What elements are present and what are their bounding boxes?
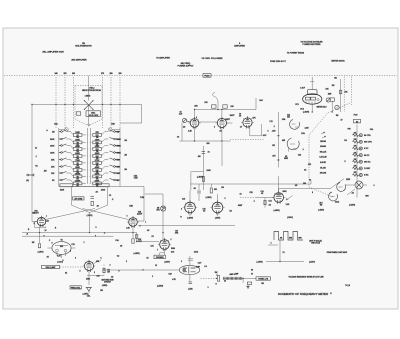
svg-text:(+250V): (+250V) [197,177,204,179]
S1 contact row 6 left [51,165,66,168]
resistor 100K [76,112,81,115]
svg-text:3: 3 [94,272,95,274]
wire V3 cathode drop [221,141,223,166]
svg-text:2: 2 [171,239,172,241]
wire V2 plate [194,110,196,119]
svg-text:R60: R60 [365,196,368,198]
resistor column A row 7 [67,173,86,178]
junction lead3 [73,104,74,105]
label R18 value [107,270,110,274]
wire V8 bottom [189,275,191,282]
svg-text:2.4K-5K: 2.4K-5K [320,161,327,164]
tube V2 [188,117,200,128]
dashed lead under V4A [230,139,264,141]
tube V12C arc [329,192,338,201]
svg-text:1200K: 1200K [75,180,81,182]
svg-text:C22: C22 [298,155,301,157]
label R15 value [137,239,142,243]
resistor R23 [136,235,138,239]
capacitor C10 [202,152,206,154]
svg-text:(+250V): (+250V) [273,210,280,212]
svg-text:SCHEMATIC OF FREQUENCY METE: SCHEMATIC OF FREQUENCY METER [278,292,329,296]
junction lead5 [110,104,111,105]
svg-text:200K: 200K [50,145,55,147]
label section mil freq power supply [178,63,195,68]
label R21 value [156,208,160,212]
tube V8 ballast envelope [179,265,199,274]
terminal box 2021 [86,111,101,117]
svg-text:C7: C7 [240,127,242,129]
trimmer C8 [182,118,190,122]
wire V2/V3 cathode bus [180,123,231,142]
junction heater left [103,269,104,270]
svg-text:750K: 750K [75,160,80,162]
bus +B line [22,232,137,234]
svg-text:.1: .1 [273,126,274,128]
S1 contact row 3 left [50,144,66,147]
svg-text:.05: .05 [46,257,48,259]
svg-text:.5M: .5M [198,156,201,158]
resistor column A row 1 [67,132,86,137]
svg-text:2ND AMPLIFIER: 2ND AMPLIFIER [71,59,87,62]
resistor R26 [247,282,251,284]
svg-text:C28: C28 [168,274,171,276]
wire bus drop x=256 [255,98,257,110]
svg-text:290: 290 [118,73,121,75]
freq dial label box [70,286,81,290]
svg-text:10%: 10% [175,233,179,235]
S1 contact row 5 left [51,158,66,161]
dial lamp label box [42,265,60,269]
svg-text:OC3: OC3 [300,109,304,111]
svg-text:1W: 1W [32,242,35,244]
wire to panel lights [243,278,256,283]
tube V9B half-section [287,138,299,152]
svg-text:3: 3 [181,261,182,263]
svg-text:2: 2 [75,258,76,260]
tube V4A [241,116,254,128]
svg-text:300K: 300K [95,153,100,155]
junction v3 top [221,109,222,110]
S1 contact row 2 right [110,137,122,140]
svg-text:POWER SUPPLY: POWER SUPPLY [178,66,195,68]
svg-text:NEON STROBOTRON: NEON STROBOTRON [82,90,101,92]
svg-text:260: 260 [72,73,75,75]
svg-text:C25: C25 [249,192,252,194]
S2 contact 4 with resistor [353,152,371,157]
svg-text:.02: .02 [111,277,113,279]
svg-text:C2: C2 [282,252,284,254]
svg-text:.5M: .5M [44,171,47,173]
resistor R14 [38,244,40,248]
svg-text:(-150V): (-150V) [164,262,170,264]
S1 row 2 dotted leader [85,141,92,143]
svg-text:C24: C24 [115,239,118,242]
S1 right bus [119,128,121,187]
label note not to scale [309,240,323,245]
svg-text:.1: .1 [302,149,303,151]
svg-text:6 MC: 6 MC [364,175,369,177]
resistor column A row 6 [67,167,86,172]
resistor R15 [132,239,134,243]
S1 row 8 dotted leader [85,182,92,184]
junction V3 cathode [221,140,222,141]
chassis boundary dashed line [4,75,397,77]
resistor R42 [330,98,334,101]
svg-text:(+150V): (+150V) [318,210,324,212]
label C10 value [207,152,209,154]
svg-text:6: 6 [143,270,144,272]
svg-text:S3: S3 [251,270,253,272]
S2 contact 5 with resistor [353,159,372,164]
neon lamp NE-2 crossed electrodes [84,100,94,110]
svg-text:10%: 10% [282,119,286,121]
svg-text:1: 1 [84,242,85,244]
svg-text:150K: 150K [75,132,80,134]
svg-text:COLD CATH: COLD CATH [88,114,99,117]
svg-text:225K: 225K [95,146,100,148]
svg-text:V5: V5 [60,240,62,242]
svg-text:7.5M: 7.5M [134,178,138,180]
S1 contact row 4 right [110,151,122,154]
capacitor C9 [189,282,193,284]
svg-text:C23: C23 [308,164,311,166]
junction lead2 [64,104,65,105]
svg-text:60 KC: 60 KC [364,155,370,157]
label C16 label [203,209,206,213]
junction v2 top [194,109,195,110]
svg-text:(+6.3V): (+6.3V) [57,262,63,264]
svg-text:J2: J2 [155,265,157,267]
svg-text:1: 1 [140,226,141,228]
resistor R33 [202,177,204,182]
svg-text:12AT7: 12AT7 [230,114,235,117]
label section 5 amplifier [234,43,245,48]
T2 winding label box [73,197,84,201]
switch S1 dashed leads to chassis [54,72,57,128]
svg-text:(+250V): (+250V) [157,286,164,288]
baseline wire [266,261,304,263]
svg-text:V2 AMPLIFIER: V2 AMPLIFIER [156,57,170,60]
svg-text:250: 250 [63,73,66,75]
range switch S2 wafer outline [309,103,350,198]
junction wave gnd [279,261,280,262]
resistor column B row 6 [93,166,109,172]
resistor R32 [223,105,227,108]
svg-text:SOCKET: SOCKET [104,282,112,284]
svg-text:C 2UF: C 2UF [300,88,305,90]
wire V11 grid [256,197,274,199]
crossed coupling wires to V1A/V1B [46,209,129,220]
S1 center leads from transformer [88,128,91,184]
wire V11 plate to switch [279,179,344,193]
svg-text:C3: C3 [109,195,111,197]
S1 contact row 1 left [52,130,67,133]
wire V7 grid feed [145,194,163,239]
svg-text:1W: 1W [107,272,110,274]
svg-text:.1%: .1% [124,140,127,142]
svg-text:C20: C20 [96,276,99,278]
S1 contact row 7 right [110,171,121,174]
wire right feed bus [340,79,342,112]
capacitor C4 [90,197,94,199]
svg-text:6C4: 6C4 [171,251,174,254]
resistor R47 [210,188,212,193]
svg-text:7: 7 [157,250,158,252]
svg-text:2: 2 [34,223,35,225]
svg-text:.02: .02 [304,170,306,172]
neon anode lead [88,86,90,101]
svg-text:5Y3: 5Y3 [295,104,298,106]
svg-text:1/2: 1/2 [46,221,48,223]
svg-text:6: 6 [95,236,96,238]
svg-text:.02: .02 [268,205,270,207]
svg-text:8: 8 [312,192,313,194]
svg-text:3: 3 [152,276,153,278]
svg-text:47: 47 [341,119,343,122]
svg-text:1.2K-2.4K: 1.2K-2.4K [319,156,327,159]
resistor column A row 5 [67,160,86,165]
svg-text:(+150V): (+150V) [256,261,263,263]
svg-text:VOLTAGE READINGS TAKEN AT 117V: VOLTAGE READINGS TAKEN AT 117V LINE [288,276,324,279]
svg-text:900K: 900K [75,167,80,169]
svg-text:3: 3 [208,287,209,289]
svg-text:6SN7: 6SN7 [238,205,242,207]
wire V7 cathode to jack [160,249,165,255]
label V9B type [284,156,288,160]
resistor column A row 4 [67,153,86,158]
wire heater line [104,269,179,271]
svg-text:375K: 375K [95,160,100,162]
resistor column A row 3 [67,145,86,151]
S1 contact row 3 right [110,144,122,147]
bus bias line [22,235,114,237]
svg-text:1/2W: 1/2W [346,179,350,181]
wire +150V vertical bus [277,112,279,192]
tube V13A [183,200,197,214]
svg-text:6X5: 6X5 [60,246,63,248]
wire V2-V3 coupling [199,122,233,123]
junction V2 cathode [194,140,195,141]
svg-text:600K: 600K [95,180,100,182]
svg-text:C6: C6 [177,137,179,139]
T2 stem to bus [89,213,91,233]
svg-text:280: 280 [109,73,112,75]
label C8 value [179,112,182,116]
svg-text:2: 2 [126,261,127,263]
svg-text:8: 8 [44,236,45,238]
tick marks bus [277,136,280,160]
svg-text:2: 2 [110,265,111,267]
tube V6 oscillator [83,260,96,272]
svg-text:.1: .1 [35,156,36,158]
svg-text:5: 5 [80,271,81,273]
svg-text:.1: .1 [253,201,254,203]
junction bus150a [278,135,279,136]
junction lead1 [55,104,56,105]
S1 contact row 1 right [110,130,121,133]
svg-text:6AL5: 6AL5 [335,201,339,204]
resistor R47 lead [210,184,212,187]
tube V12A arc [337,183,346,192]
svg-text:C5: C5 [151,236,153,238]
svg-text:220K: 220K [60,190,65,192]
wire mid coupling [191,146,204,191]
wire V10 bottom to bus [311,104,313,112]
transformer T2 envelope [71,187,107,213]
svg-text:470 OHM: 470 OHM [74,198,82,201]
svg-text:(-150): (-150) [188,288,193,290]
svg-text:.02: .02 [203,211,205,213]
svg-text:6 KC: 6 KC [364,148,369,150]
svg-text:(-150V): (-150V) [102,285,108,287]
svg-text:10%: 10% [156,210,160,212]
S2 contact 1 with resistor [353,132,372,137]
grid stopper hook [213,92,218,101]
svg-text:5: 5 [268,131,269,133]
resistor column B row 2 [93,139,109,144]
wire neon to grid [88,105,90,124]
svg-text:.02: .02 [95,192,97,194]
label C label [300,88,305,90]
svg-text:525K: 525K [95,173,100,175]
tube V1B [127,216,139,227]
svg-text:+6: +6 [26,234,28,236]
svg-text:T1 POWER TRANS: T1 POWER TRANS [287,52,305,55]
svg-text:200K: 200K [117,145,122,147]
ground below R26 [246,285,249,289]
meter M1 [335,105,339,109]
svg-text:100K: 100K [50,152,55,154]
S1 contact row 7 left [51,171,66,174]
svg-text:450K: 450K [75,145,80,148]
svg-text:(+150V): (+150V) [349,205,356,207]
junction T2 bus [89,232,90,233]
svg-text:C19: C19 [71,244,74,246]
svg-text:C21: C21 [150,246,153,248]
tube V11 detector [272,191,285,204]
tube V5 6X5 envelope [52,242,71,255]
S1 contact row 6 right [110,165,121,168]
resistor column B row 1 [93,132,109,137]
label note matched pair [101,279,114,284]
svg-text:.05: .05 [261,193,263,195]
square wave timing diagram [274,232,303,241]
S2 contact 3 with resistor [353,146,369,151]
S1 row 7 dotted leader [85,175,92,177]
label C9 label [239,114,241,118]
svg-text:METER 200UA: METER 200UA [331,60,345,63]
wire V1B plate loop [120,187,144,222]
junction lead4 [102,104,103,105]
svg-text:V3 CATH. FOLLOWER: V3 CATH. FOLLOWER [202,57,223,60]
wire V1B cathode [132,227,134,238]
resistor column A row 8 [67,180,86,185]
junction lights [242,278,243,279]
junction bus150b [278,159,279,160]
svg-text:12AT7: 12AT7 [225,118,230,121]
svg-text:12AU7: 12AU7 [137,213,142,216]
svg-text:C13: C13 [268,201,271,203]
svg-text:500K: 500K [50,139,55,141]
S1 contact row 2 left [50,137,66,140]
V10 top cap connector [307,90,317,95]
svg-text:C1: C1 [35,148,37,150]
svg-text:3-30: 3-30 [179,114,182,116]
svg-text:150-300: 150-300 [320,141,326,143]
tube V1A [36,216,48,227]
svg-text:(-150V): (-150V) [309,261,315,263]
svg-text:FROM PANEL LIGHT ASSY: FROM PANEL LIGHT ASSY [327,251,348,254]
svg-text:500K: 500K [117,139,122,141]
label V1B designator [137,212,142,216]
svg-text:2W: 2W [100,290,103,292]
svg-text:.05: .05 [120,246,122,248]
svg-text:75K: 75K [95,132,99,134]
svg-text:3: 3 [214,127,215,129]
svg-text:.1%: .1% [124,155,127,157]
ground symbol below V6 [86,288,92,293]
svg-text:240: 240 [54,72,57,75]
svg-text:.5: .5 [112,199,113,201]
input terminal J1 [27,174,34,176]
svg-text:100K: 100K [206,170,211,172]
svg-text:6: 6 [196,117,197,119]
wire V1A cathode [39,226,41,243]
svg-text:98%: 98% [298,238,302,240]
svg-text:10K-20K: 10K-20K [320,173,327,175]
svg-text:(+150V): (+150V) [206,197,212,199]
svg-text:1/2: 1/2 [295,185,297,187]
junction lead6 [119,104,120,105]
svg-text:150K: 150K [95,139,100,141]
resistor R44 [264,200,266,204]
wire V6 cathode network [87,271,104,285]
svg-text:4: 4 [271,242,272,245]
dashed lead V6 [103,265,105,276]
ballast resistor R25 (ticked) [223,277,243,280]
svg-text:FUSE 115V 60 CY: FUSE 115V 60 CY [270,61,287,63]
capacitor C15 [197,191,201,193]
label V5 designator [60,240,62,242]
svg-text:1/2: 1/2 [183,127,185,129]
dashed meter leads [344,77,351,113]
S2 label box [354,119,361,123]
svg-text:C11: C11 [269,121,272,123]
junction heater [216,278,217,279]
wire R42 down [331,101,333,112]
svg-text:300K: 300K [75,139,80,141]
svg-text:600-1.2K: 600-1.2K [320,151,327,153]
wire V12 links [345,185,367,195]
tube V10 rectifier envelope [303,94,322,104]
svg-text:(-150V): (-150V) [38,251,44,253]
label NE-2 neon strobotron [82,88,101,92]
svg-text:METER ADJ: METER ADJ [317,106,327,109]
svg-text:6: 6 [127,216,128,218]
S1 contact row 5 right [110,158,121,161]
wire V13A feed [190,191,218,217]
lead from chassis to neon [88,76,90,86]
svg-text:MULTIVIBRATOR: MULTIVIBRATOR [75,45,92,48]
resistor column B row 3 [93,146,109,151]
tube V13B [210,200,224,214]
svg-text:270: 270 [101,73,104,75]
resistor column A row 2 [67,139,86,144]
S1 top contacts circled [59,128,68,132]
svg-text:10%: 10% [301,133,305,135]
wire V8 top cap [188,256,193,265]
